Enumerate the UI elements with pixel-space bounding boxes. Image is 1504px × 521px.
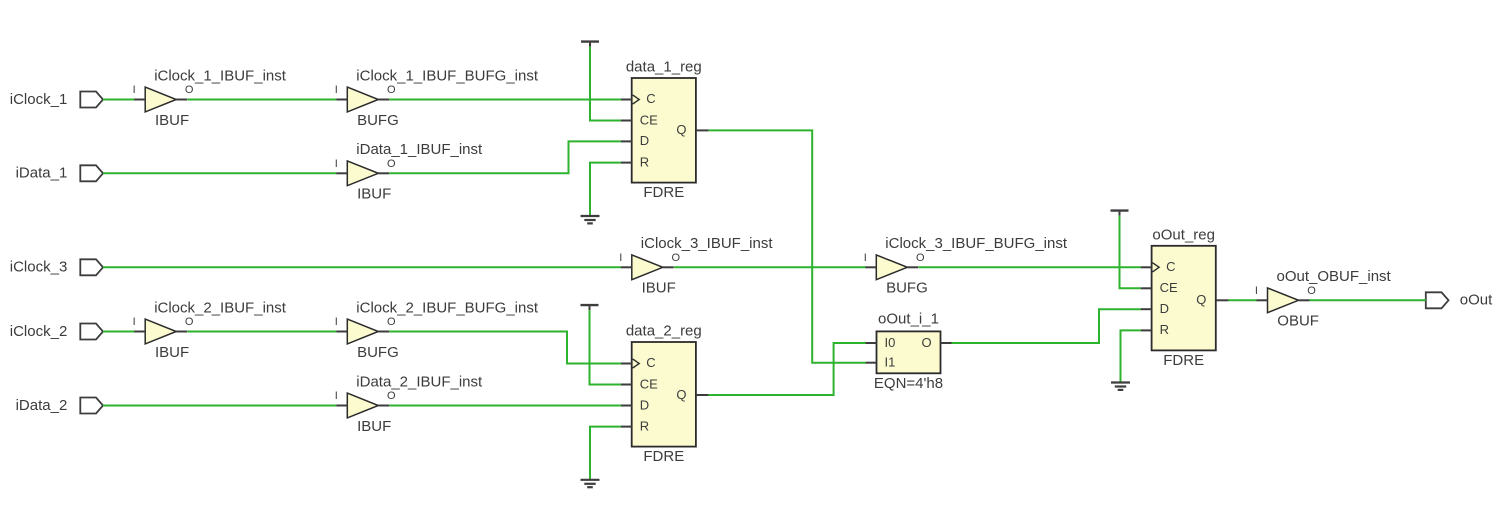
port label oOut	[1460, 292, 1493, 309]
data_1_reg pin stub Q	[696, 129, 709, 131]
oOut_i_1 pin label I0	[885, 335, 896, 350]
iData_1_IBUF_inst pin label O	[387, 158, 396, 170]
svg-text:data_1_reg: data_1_reg	[626, 59, 702, 76]
data_1_reg pin label C	[646, 91, 655, 106]
svg-text:FDRE: FDRE	[643, 184, 684, 201]
instance label oOut_reg	[1152, 226, 1215, 243]
svg-text:iClock_2_IBUF_inst: iClock_2_IBUF_inst	[154, 299, 287, 316]
svg-text:I: I	[864, 252, 867, 264]
OBUF oOut_OBUF_inst body	[1268, 288, 1299, 313]
type label BUFG of iClock_2_IBUF_BUFG_inst	[357, 344, 399, 361]
ground symbol oOut_reg	[1111, 383, 1130, 390]
wire net iClock_3_IBUF (IBUF to BUFG)	[674, 266, 865, 268]
svg-text:iClock_1_IBUF_inst: iClock_1_IBUF_inst	[154, 67, 287, 84]
oOut_reg pin stub D	[1141, 308, 1152, 310]
svg-text:iClock_2_IBUF_BUFG_inst: iClock_2_IBUF_BUFG_inst	[356, 299, 539, 316]
data_1_reg pin stub CE	[621, 120, 632, 122]
oOut_reg pin label D	[1160, 301, 1169, 316]
instance label oOut_i_1	[878, 311, 939, 328]
iClock_2_IBUF_inst input pin stub I	[134, 331, 145, 333]
BUFG iClock_2_IBUF_BUFG_inst body	[347, 319, 378, 344]
wire net iData_2 (port to IBUF)	[103, 405, 336, 407]
svg-text:I0: I0	[885, 335, 896, 350]
svg-text:O: O	[387, 84, 396, 96]
type label IBUF of iData_1_IBUF_inst	[357, 186, 391, 203]
iClock_2_IBUF_BUFG_inst pin label O	[387, 316, 396, 328]
wire net iClock_2 (port to IBUF)	[103, 331, 134, 333]
iClock_3_IBUF_inst output pin stub O	[663, 266, 674, 268]
svg-text:iClock_1_IBUF_BUFG_inst: iClock_1_IBUF_BUFG_inst	[356, 67, 539, 84]
svg-text:C: C	[646, 91, 655, 106]
instance label iClock_1_IBUF_inst	[154, 67, 287, 84]
iData_2_IBUF_inst input pin stub I	[336, 405, 347, 407]
data_2_reg pin label C	[646, 355, 655, 370]
svg-text:I: I	[133, 316, 136, 328]
data_2_reg pin label CE	[640, 376, 658, 391]
svg-text:IBUF: IBUF	[357, 186, 391, 203]
svg-text:oOut: oOut	[1460, 292, 1493, 309]
svg-text:O: O	[387, 316, 396, 328]
iClock_2_IBUF_BUFG_inst input pin stub I	[336, 331, 347, 333]
iClock_3_IBUF_inst input pin stub I	[621, 266, 632, 268]
wire net iClock_2_IBUF_BUFG (BUFG to data_2_reg C)	[389, 332, 621, 364]
wire data_1_reg R to ground	[590, 163, 621, 216]
wire net data_1 (data_1_reg Q to oOut_i_1 I1)	[709, 130, 866, 362]
data_1_reg pin stub D	[621, 140, 632, 142]
data_2_reg pin stub D	[621, 405, 632, 407]
svg-text:O: O	[916, 252, 925, 264]
output port oOut	[1426, 292, 1449, 308]
wire net iClock_3 (port to IBUF)	[103, 266, 621, 268]
wire VCC for data_2_reg CE to CE	[590, 310, 621, 384]
BUFG iClock_1_IBUF_BUFG_inst body	[347, 87, 378, 112]
svg-text:data_2_reg: data_2_reg	[626, 323, 702, 340]
iClock_1_IBUF_inst output pin stub O	[176, 99, 187, 101]
iClock_1_IBUF_inst input pin stub I	[134, 99, 145, 101]
instance label data_2_reg	[626, 323, 702, 340]
iClock_2_IBUF_BUFG_inst pin label I	[335, 316, 338, 328]
svg-text:iClock_2: iClock_2	[10, 323, 68, 340]
input port iClock_1	[80, 92, 103, 108]
oOut_i_1 pin stub O	[941, 342, 952, 344]
port label iClock_3	[10, 259, 68, 276]
svg-text:CE: CE	[1160, 280, 1178, 295]
ground symbol data_1_reg	[581, 216, 600, 223]
oOut_reg pin stub Q	[1216, 299, 1229, 301]
svg-text:FDRE: FDRE	[643, 448, 684, 465]
instance label iClock_2_IBUF_inst	[154, 299, 287, 316]
data_1_reg pin label Q	[676, 122, 686, 137]
type label FDRE of oOut_reg	[1163, 352, 1204, 369]
power VCC symbol for data_2_reg CE	[581, 305, 599, 310]
type label FDRE of data_1_reg	[643, 184, 684, 201]
svg-text:BUFG: BUFG	[886, 280, 928, 297]
data_1_reg pin stub C	[621, 99, 632, 101]
instance label oOut_OBUF_inst	[1277, 268, 1392, 285]
iClock_2_IBUF_inst pin label O	[185, 316, 194, 328]
svg-text:C: C	[646, 355, 655, 370]
wire net iClock_2_IBUF (IBUF to BUFG)	[187, 331, 336, 333]
oOut_reg pin label C	[1166, 259, 1175, 274]
IBUF iData_1_IBUF_inst body	[347, 161, 378, 186]
iData_2_IBUF_inst output pin stub O	[378, 405, 389, 407]
iData_1_IBUF_inst output pin stub O	[378, 172, 389, 174]
wire net iData_1_IBUF (IBUF to data_1_reg D)	[389, 141, 621, 173]
LUT oOut_i_1 body	[877, 331, 941, 373]
BUFG iClock_3_IBUF_BUFG_inst body	[876, 255, 907, 280]
iClock_1_IBUF_BUFG_inst input pin stub I	[336, 99, 347, 101]
wire VCC for oOut_reg CE to CE	[1120, 216, 1141, 289]
data_2_reg pin stub CE	[621, 384, 632, 386]
iClock_3_IBUF_BUFG_inst pin label I	[864, 252, 867, 264]
svg-text:O: O	[922, 335, 932, 350]
data_1_reg pin label R	[640, 154, 649, 169]
iClock_3_IBUF_BUFG_inst pin label O	[916, 252, 925, 264]
port label iClock_1	[10, 91, 68, 108]
iClock_1_IBUF_BUFG_inst output pin stub O	[378, 99, 389, 101]
type label BUFG of iClock_1_IBUF_BUFG_inst	[357, 112, 399, 129]
svg-text:I: I	[335, 316, 338, 328]
wire net data_2 (data_2_reg Q to oOut_i_1 I0)	[709, 343, 866, 395]
wire net oOut_i (oOut_i_1 O to oOut_reg D)	[952, 309, 1141, 343]
wire net iClock_3_IBUF_BUFG (BUFG to oOut_reg C)	[919, 266, 1141, 268]
svg-text:CE: CE	[640, 112, 658, 127]
oOut_i_1 pin stub I1	[866, 362, 877, 364]
iClock_3_IBUF_BUFG_inst input pin stub I	[865, 266, 876, 268]
type label IBUF of iData_2_IBUF_inst	[357, 418, 391, 435]
oOut_reg pin stub C	[1141, 266, 1152, 268]
oOut_reg clock arrow	[1153, 263, 1160, 272]
iClock_1_IBUF_inst pin label O	[185, 84, 194, 96]
data_2_reg pin stub Q	[696, 394, 709, 396]
data_2_reg pin label Q	[676, 387, 686, 402]
svg-text:C: C	[1166, 259, 1175, 274]
type label OBUF of oOut_OBUF_inst	[1277, 313, 1319, 330]
svg-text:EQN=4'h8: EQN=4'h8	[874, 375, 943, 392]
oOut_reg pin stub CE	[1141, 287, 1152, 289]
svg-text:iClock_3: iClock_3	[10, 259, 68, 276]
svg-text:IBUF: IBUF	[357, 418, 391, 435]
port label iData_1	[16, 165, 68, 182]
instance label iClock_2_IBUF_BUFG_inst	[356, 299, 539, 316]
input port iClock_2	[80, 324, 103, 340]
svg-text:O: O	[185, 84, 194, 96]
svg-text:oOut_reg: oOut_reg	[1152, 226, 1215, 243]
wire net iClock_1_IBUF_BUFG (BUFG to data_1_reg C)	[389, 99, 621, 101]
instance label iClock_3_IBUF_inst	[641, 235, 774, 252]
svg-text:Q: Q	[676, 387, 686, 402]
svg-text:O: O	[672, 252, 681, 264]
IBUF iClock_1_IBUF_inst body	[145, 87, 176, 112]
instance label iData_1_IBUF_inst	[356, 141, 483, 158]
svg-text:iData_1_IBUF_inst: iData_1_IBUF_inst	[356, 141, 483, 158]
wire net iClock_1 (port to IBUF)	[103, 99, 134, 101]
svg-text:IBUF: IBUF	[155, 344, 189, 361]
svg-text:O: O	[185, 316, 194, 328]
wire oOut_reg R to ground	[1121, 330, 1141, 382]
IBUF iClock_3_IBUF_inst body	[632, 255, 663, 280]
flip-flop oOut_reg body	[1152, 246, 1216, 351]
flip-flop data_1_reg body	[632, 78, 696, 183]
iClock_3_IBUF_inst pin label I	[619, 252, 622, 264]
instance label data_1_reg	[626, 59, 702, 76]
port label iClock_2	[10, 323, 68, 340]
oOut_reg pin stub R	[1141, 329, 1152, 331]
oOut_OBUF_inst pin label O	[1307, 285, 1316, 297]
svg-text:D: D	[640, 397, 649, 412]
svg-text:I1: I1	[885, 355, 896, 370]
svg-text:R: R	[1160, 322, 1169, 337]
svg-text:IBUF: IBUF	[642, 280, 676, 297]
svg-text:iData_2: iData_2	[16, 397, 68, 414]
svg-text:I: I	[133, 84, 136, 96]
svg-text:I: I	[335, 158, 338, 170]
data_2_reg clock arrow	[633, 359, 640, 368]
svg-text:FDRE: FDRE	[1163, 352, 1204, 369]
svg-text:iClock_3_IBUF_BUFG_inst: iClock_3_IBUF_BUFG_inst	[885, 235, 1068, 252]
oOut_OBUF_inst input pin stub I	[1256, 299, 1267, 301]
iData_1_IBUF_inst input pin stub I	[336, 172, 347, 174]
svg-text:I: I	[1255, 285, 1258, 297]
iClock_1_IBUF_BUFG_inst pin label O	[387, 84, 396, 96]
oOut_i_1 pin label O	[922, 335, 932, 350]
type label FDRE of data_2_reg	[643, 448, 684, 465]
svg-text:D: D	[1160, 301, 1169, 316]
instance label iClock_1_IBUF_BUFG_inst	[356, 67, 539, 84]
svg-text:BUFG: BUFG	[357, 112, 399, 129]
data_1_reg pin label CE	[640, 112, 658, 127]
input port iClock_3	[80, 259, 103, 275]
iData_1_IBUF_inst pin label I	[335, 158, 338, 170]
iClock_1_IBUF_inst pin label I	[133, 84, 136, 96]
svg-text:R: R	[640, 418, 649, 433]
type label IBUF of iClock_1_IBUF_inst	[155, 112, 189, 129]
input port iData_2	[80, 398, 103, 414]
oOut_OBUF_inst output pin stub O	[1299, 299, 1310, 301]
svg-text:CE: CE	[640, 376, 658, 391]
oOut_reg pin label R	[1160, 322, 1169, 337]
svg-text:oOut_i_1: oOut_i_1	[878, 311, 939, 328]
type label IBUF of iClock_3_IBUF_inst	[642, 280, 676, 297]
svg-text:iClock_3_IBUF_inst: iClock_3_IBUF_inst	[641, 235, 774, 252]
wire net oOut_OBUF (OBUF to port)	[1310, 299, 1426, 301]
svg-text:D: D	[640, 133, 649, 148]
svg-text:Q: Q	[1196, 292, 1206, 307]
instance label iData_2_IBUF_inst	[356, 373, 483, 390]
ground symbol data_2_reg	[581, 480, 600, 487]
wire VCC for data_1_reg CE to CE	[590, 47, 621, 121]
power VCC symbol for data_1_reg CE	[581, 42, 599, 47]
data_2_reg pin stub C	[621, 363, 632, 365]
port label iData_2	[16, 397, 68, 414]
svg-text:oOut_OBUF_inst: oOut_OBUF_inst	[1277, 268, 1392, 285]
svg-text:I: I	[335, 390, 338, 402]
equation label EQN=4'h8	[874, 375, 943, 392]
data_1_reg pin label D	[640, 133, 649, 148]
IBUF iData_2_IBUF_inst body	[347, 393, 378, 418]
svg-text:iData_2_IBUF_inst: iData_2_IBUF_inst	[356, 373, 483, 390]
svg-text:I: I	[619, 252, 622, 264]
power VCC symbol for oOut_reg CE	[1111, 211, 1129, 216]
wire data_2_reg R to ground	[590, 427, 621, 480]
iClock_3_IBUF_inst pin label O	[672, 252, 681, 264]
data_2_reg pin stub R	[621, 426, 632, 428]
oOut_OBUF_inst pin label I	[1255, 285, 1258, 297]
svg-text:I: I	[335, 84, 338, 96]
svg-text:iClock_1: iClock_1	[10, 91, 68, 108]
type label BUFG of iClock_3_IBUF_BUFG_inst	[886, 280, 928, 297]
data_1_reg pin stub R	[621, 162, 632, 164]
data_2_reg pin label R	[640, 418, 649, 433]
iData_2_IBUF_inst pin label I	[335, 390, 338, 402]
iClock_2_IBUF_inst output pin stub O	[176, 331, 187, 333]
iClock_1_IBUF_BUFG_inst pin label I	[335, 84, 338, 96]
svg-text:OBUF: OBUF	[1277, 313, 1319, 330]
svg-text:iData_1: iData_1	[16, 165, 68, 182]
wire net iData_1 (port to IBUF)	[103, 172, 336, 174]
instance label iClock_3_IBUF_BUFG_inst	[885, 235, 1068, 252]
oOut_reg pin label CE	[1160, 280, 1178, 295]
iClock_2_IBUF_BUFG_inst output pin stub O	[378, 331, 389, 333]
data_2_reg pin label D	[640, 397, 649, 412]
oOut_i_1 pin stub I0	[866, 342, 877, 344]
svg-text:IBUF: IBUF	[155, 112, 189, 129]
svg-text:O: O	[387, 158, 396, 170]
wire net iData_2_IBUF (IBUF to data_2_reg D)	[389, 405, 621, 407]
wire net iClock_1_IBUF (IBUF to BUFG)	[187, 99, 336, 101]
svg-text:O: O	[387, 390, 396, 402]
svg-text:BUFG: BUFG	[357, 344, 399, 361]
svg-text:Q: Q	[676, 122, 686, 137]
svg-text:R: R	[640, 154, 649, 169]
wire net oOut_reg_Q (oOut_reg Q to OBUF)	[1228, 299, 1256, 301]
input port iData_1	[80, 165, 103, 181]
iData_2_IBUF_inst pin label O	[387, 390, 396, 402]
flip-flop data_2_reg body	[632, 342, 696, 447]
iClock_2_IBUF_inst pin label I	[133, 316, 136, 328]
data_1_reg clock arrow	[633, 95, 640, 104]
oOut_i_1 pin label I1	[885, 355, 896, 370]
svg-text:O: O	[1307, 285, 1316, 297]
iClock_3_IBUF_BUFG_inst output pin stub O	[907, 266, 918, 268]
IBUF iClock_2_IBUF_inst body	[145, 319, 176, 344]
type label IBUF of iClock_2_IBUF_inst	[155, 344, 189, 361]
oOut_reg pin label Q	[1196, 292, 1206, 307]
